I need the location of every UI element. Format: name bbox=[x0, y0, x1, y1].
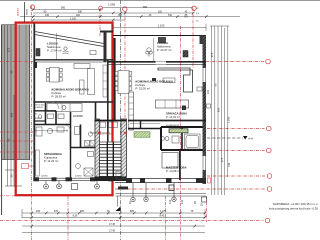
kitchen counter right unit bbox=[156, 100, 189, 108]
loggia text bbox=[47, 42, 62, 53]
bottom dim numbers bbox=[36, 210, 194, 232]
living room label bbox=[52, 88, 90, 99]
dim line y=13 bbox=[33, 12, 193, 14]
stair right wall bbox=[121, 119, 127, 177]
green hatch box bbox=[134, 132, 150, 137]
left vertical connector bbox=[21, 209, 23, 218]
wall stub vertical bbox=[140, 121, 142, 129]
dim line above green box bbox=[130, 123, 160, 125]
svg-text:220/60: 220/60 bbox=[75, 176, 82, 178]
bottom dim ticks bbox=[31, 212, 207, 228]
grid line x=165.5 lower bbox=[165, 196, 167, 240]
band left edge line bbox=[1, 25, 3, 216]
dim line y=213 bbox=[22, 212, 205, 214]
tall cabinet right unit bbox=[129, 92, 134, 130]
svg-text:17,45: 17,45 bbox=[109, 223, 116, 226]
landing dim arrow left bbox=[90, 132, 110, 134]
stair treads bbox=[100, 142, 122, 177]
storage tiny labels bbox=[34, 104, 44, 121]
grid line y=189 bbox=[115, 188, 266, 190]
kitchen side counter bbox=[88, 69, 95, 95]
right loggia divider line bbox=[153, 38, 155, 62]
bathroom fixtures left bbox=[36, 127, 64, 136]
stairwell north wall bbox=[95, 120, 127, 122]
bubble y=220.5 right bbox=[265, 218, 270, 223]
section line A-A bbox=[207, 137, 243, 139]
svg-text:620: 620 bbox=[158, 10, 163, 13]
left unit east wall upper mass bbox=[104, 31, 107, 62]
svg-text:905: 905 bbox=[80, 210, 85, 213]
grid line x=206.6 lower bbox=[206, 196, 208, 222]
chimney block left wall bbox=[33, 62, 37, 68]
bubble y=128.5 right bbox=[267, 126, 272, 131]
small bath fixtures middle bbox=[48, 114, 93, 136]
dark square below wall bbox=[169, 185, 174, 191]
izvod box right wall 1 bbox=[197, 87, 202, 91]
svg-text:HODNIK: HODNIK bbox=[73, 114, 83, 118]
section marker A-A bbox=[243, 136, 248, 140]
dim line y=9 right bbox=[103, 7, 193, 9]
sofa L-shape bbox=[158, 68, 193, 92]
svg-text:405: 405 bbox=[36, 210, 41, 213]
stairwell bottom wall bbox=[95, 177, 127, 182]
dim line y=232.5 bbox=[22, 232, 205, 234]
svg-text:385: 385 bbox=[118, 14, 123, 17]
middle interior walls bbox=[33, 102, 95, 148]
door arc living-hall bbox=[52, 102, 59, 109]
svg-text:905: 905 bbox=[143, 6, 148, 9]
grid line y=220.5 bbox=[0, 220, 264, 222]
right wall window gap 1 bbox=[202, 68, 206, 82]
svg-text:210: 210 bbox=[169, 199, 172, 204]
red cross marker 1 bbox=[98, 132, 102, 135]
top edge line (loggia open edge) bbox=[113, 35, 206, 37]
top dim texts bbox=[44, 3, 188, 21]
right unit bottom wall window lines bbox=[115, 178, 206, 180]
right loggia plant icon bbox=[146, 48, 153, 57]
grid line x=125 bbox=[124, 11, 126, 130]
svg-text:745: 745 bbox=[227, 162, 231, 167]
stair rails bbox=[106, 142, 108, 177]
band bottom edge line bbox=[1, 159, 29, 161]
loggia shower icon bbox=[63, 47, 69, 54]
svg-text:17,45: 17,45 bbox=[109, 229, 116, 232]
bubble x=100 top bbox=[99, 6, 103, 10]
bubble y=189 right bbox=[267, 187, 272, 192]
master east wall bbox=[179, 150, 181, 180]
grid line y=152 left bbox=[0, 151, 33, 153]
svg-text:P: 28,93 m²: P: 28,93 m² bbox=[52, 95, 67, 99]
svg-text:805: 805 bbox=[130, 210, 135, 213]
porch posts left bbox=[44, 181, 100, 190]
svg-text:345: 345 bbox=[45, 14, 50, 17]
right unit dining table bbox=[115, 71, 132, 94]
tv dark box bbox=[152, 78, 156, 81]
bathroom fixtures right bbox=[161, 134, 201, 149]
right unit west wall bbox=[114, 38, 116, 121]
dim end small texts bbox=[184, 8, 200, 23]
window labels rotated above bottom dims bbox=[129, 199, 204, 206]
door arc hall-bath bbox=[65, 125, 71, 131]
svg-text:P: 14,08 m²: P: 14,08 m² bbox=[166, 169, 181, 173]
grid line y=195.8 left stub bbox=[0, 195, 15, 197]
svg-text:meda: meda bbox=[26, 8, 29, 15]
svg-text:KUHINJU: KUHINJU bbox=[34, 107, 44, 109]
band inner wall line x=19.5 bbox=[19, 25, 21, 161]
grid line y=61.5 left bbox=[0, 61, 33, 63]
small bath fixtures bbox=[76, 152, 94, 177]
loggia wall door gap bbox=[156, 60, 167, 65]
loggia slope line 1 bbox=[35, 32, 105, 44]
bedroom label bbox=[44, 152, 62, 163]
izvod box right wall 2 bbox=[207, 104, 211, 108]
boundary dashed line x=120.5 bbox=[120, 0, 122, 240]
izvod red leader bbox=[29, 165, 34, 167]
bed bbox=[162, 153, 178, 169]
svg-text:585: 585 bbox=[61, 7, 66, 10]
svg-text:420: 420 bbox=[76, 14, 81, 17]
small sink circle bbox=[38, 115, 42, 119]
storage area walls bbox=[33, 110, 56, 112]
lower landing door arc bbox=[116, 171, 124, 179]
kitchen upper counter bbox=[74, 64, 90, 69]
washing machines bbox=[85, 141, 90, 147]
svg-text:375: 375 bbox=[6, 47, 10, 52]
landing closet 2 bbox=[109, 122, 118, 128]
top wall column bbox=[158, 37, 166, 43]
izvod red box bbox=[22, 164, 29, 169]
svg-text:220/60: 220/60 bbox=[41, 176, 48, 178]
grid line y=132 left bbox=[0, 131, 33, 133]
coffee table bbox=[163, 78, 175, 83]
right dim rotated numbers bbox=[210, 52, 231, 167]
interior dim row left unit bbox=[35, 130, 68, 133]
band top edge line bbox=[1, 24, 15, 26]
svg-text:1.160: 1.160 bbox=[70, 17, 77, 20]
svg-text:P: 11,23 m²: P: 11,23 m² bbox=[44, 159, 58, 163]
grid line x=180.5 bbox=[180, 26, 182, 240]
loggia slope line 2 bbox=[35, 35, 105, 47]
right loggia column bbox=[183, 51, 188, 58]
bubble y=61 right bbox=[266, 59, 271, 64]
grid line x=31.5 bbox=[31, 6, 33, 240]
svg-text:granica: granica bbox=[17, 7, 20, 16]
tick marks top dims bbox=[32, 8, 208, 21]
porch posts right bbox=[131, 183, 207, 202]
right living label bbox=[136, 80, 174, 91]
entry step wall bbox=[118, 187, 128, 190]
left rotated numbers bbox=[6, 47, 13, 177]
right loggia inner wall bbox=[108, 62, 206, 65]
right unit bottom wall blocks bbox=[126, 178, 132, 183]
svg-text:8,56: 8,56 bbox=[73, 215, 78, 218]
svg-text:240: 240 bbox=[207, 89, 210, 94]
loggia inner wall (window wall) bbox=[33, 60, 113, 62]
wall near green box bbox=[128, 128, 161, 130]
left unit top-right wall segment bbox=[100, 31, 113, 33]
red dash stub at hall bbox=[102, 133, 112, 135]
dim line y=16.5 bbox=[20, 16, 240, 18]
svg-text:1.160: 1.160 bbox=[158, 24, 165, 28]
dining table bbox=[46, 68, 62, 83]
dim line y=226 bbox=[22, 225, 205, 227]
loggia divider line bbox=[56, 33, 58, 60]
entry arrow triangle bbox=[116, 207, 121, 212]
svg-text:KUPAONICA: KUPAONICA bbox=[166, 124, 179, 127]
svg-text:8,45: 8,45 bbox=[160, 215, 165, 218]
bubble y=150.5 right bbox=[267, 148, 272, 153]
bubble x=194 top bbox=[192, 6, 196, 10]
bubble x=32 top bbox=[30, 5, 34, 9]
dim line y=20 bbox=[33, 19, 125, 21]
bubble y=176 right bbox=[267, 174, 272, 179]
svg-text:510: 510 bbox=[168, 14, 173, 17]
svg-text:375: 375 bbox=[210, 52, 214, 57]
svg-text:1.595: 1.595 bbox=[108, 3, 115, 7]
terrace slab lines bbox=[116, 193, 207, 195]
left outer wall bbox=[33, 24, 35, 182]
left unit bottom wall window lines bbox=[33, 177, 113, 179]
svg-text:P: 23,37 m²: P: 23,37 m² bbox=[157, 48, 172, 52]
bedroom closet bbox=[36, 150, 39, 176]
kitchen island bbox=[80, 80, 85, 94]
stove dark box bbox=[182, 106, 186, 111]
svg-text:WC: WC bbox=[34, 114, 38, 116]
wall between living and middle zone bbox=[33, 101, 113, 103]
small red box right of corner bbox=[208, 178, 211, 183]
svg-text:1.075: 1.075 bbox=[160, 210, 167, 213]
right outer wall bbox=[203, 36, 207, 185]
gray band fill bbox=[1, 25, 30, 161]
top wall corner block bbox=[200, 36, 207, 45]
bedroom walls bbox=[70, 148, 72, 180]
top page border line bbox=[0, 0, 320, 2]
landing closet 1 bbox=[100, 122, 106, 128]
svg-text:P: 14,43 m²: P: 14,43 m² bbox=[166, 115, 180, 119]
band inner wall line x=26 bbox=[25, 25, 27, 161]
grid line y=150.5 bbox=[207, 150, 265, 152]
svg-text:375: 375 bbox=[220, 157, 224, 162]
grid line x=193 bbox=[192, 8, 194, 68]
svg-text:NAPOMENA: +0,00= 100,15 m n.v.: NAPOMENA: +0,00= 100,15 m n.v. bbox=[273, 202, 318, 206]
svg-text:1.160: 1.160 bbox=[226, 116, 230, 123]
master label bbox=[166, 166, 187, 174]
svg-text:A-A: A-A bbox=[248, 136, 253, 140]
svg-text:420: 420 bbox=[217, 107, 221, 112]
loggia vent box bbox=[90, 51, 96, 55]
right unit middle wall bbox=[128, 120, 206, 122]
right loggia text bbox=[157, 41, 172, 52]
left unit east wall bbox=[107, 60, 109, 180]
top-left boundary line bbox=[24, 2, 26, 22]
grid line y=128.5 bbox=[207, 128, 265, 130]
grid line x=100 bbox=[99, 9, 101, 37]
grid line y=141 left bbox=[0, 140, 33, 142]
band right edge line bbox=[29, 25, 31, 161]
closet along east wall bbox=[103, 65, 107, 97]
dim line y=218 bbox=[22, 217, 205, 219]
red cross marker 2 bbox=[124, 132, 128, 135]
svg-text:SPREM.: SPREM. bbox=[34, 118, 42, 120]
grid line x=68 lower bbox=[67, 196, 69, 240]
entry leader line bbox=[116, 196, 118, 207]
svg-text:210: 210 bbox=[181, 199, 184, 204]
bedroom2 label bbox=[166, 111, 187, 119]
loggia column bbox=[36, 49, 40, 57]
right wall window gap 2 bbox=[202, 156, 206, 170]
grid line y=61.5 bbox=[206, 61, 265, 63]
grid line y=176 bbox=[207, 175, 266, 177]
bubble x=125 top bbox=[123, 7, 127, 11]
dim line above right unit bbox=[113, 27, 206, 29]
svg-text:P: 17,84 m²: P: 17,84 m² bbox=[47, 49, 62, 53]
kitchen lower counters bbox=[47, 104, 82, 112]
dim line y=9.5 bbox=[33, 9, 100, 11]
svg-text:420: 420 bbox=[10, 112, 14, 117]
svg-text:kota postojećeg terena kod kuć: kota postojećeg terena kod kuće -0,35 bbox=[269, 206, 318, 210]
bathroom walls right bbox=[161, 127, 203, 150]
window labels above bottom wall bbox=[41, 176, 82, 178]
left unit bottom wall blocks bbox=[33, 177, 39, 181]
svg-text:P: 32,05 m²: P: 32,05 m² bbox=[136, 87, 151, 91]
green shelf bar bbox=[169, 129, 188, 133]
stair left wall bbox=[95, 119, 100, 177]
svg-text:670: 670 bbox=[54, 210, 59, 213]
